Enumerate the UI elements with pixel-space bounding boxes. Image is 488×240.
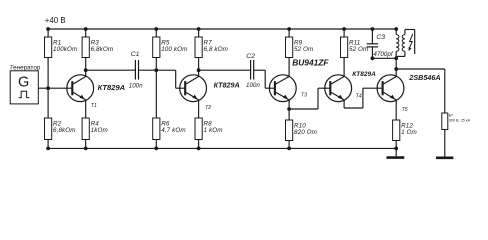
resistor R2 <box>45 88 76 148</box>
svg-text:КТ829А: КТ829А <box>98 83 126 92</box>
resistor R4 <box>82 118 108 148</box>
node: top rail / R11 <box>342 27 346 31</box>
svg-text:КТ829А: КТ829А <box>214 81 240 90</box>
node: top rail / R9 <box>287 27 291 31</box>
svg-text:Т5: Т5 <box>402 107 408 113</box>
node: top rail / R7 <box>197 27 201 31</box>
transistor T4 (КТ829А) <box>325 71 376 102</box>
node: top rail / C3 <box>371 27 375 31</box>
node: top rail end / primary / C3 wire <box>394 27 398 31</box>
spark discharge arrow <box>409 34 413 49</box>
svg-text:100n: 100n <box>129 83 143 90</box>
svg-text:G: G <box>18 74 29 90</box>
node: R6 / ground rail <box>154 147 158 151</box>
wire generator output to T1 base <box>38 87 72 89</box>
node: top rail / R3 <box>84 27 88 31</box>
transistor T5 (2SB546A) <box>377 73 440 113</box>
svg-text:1 kOm: 1 kOm <box>204 127 223 134</box>
resistor R5 <box>153 29 188 70</box>
node: R7 / C2 / T2 collector <box>197 68 201 72</box>
wire T1 collector node to C1 <box>86 69 136 71</box>
svg-text:КТ829А: КТ829А <box>352 71 376 78</box>
svg-text:4,7 kOm: 4,7 kOm <box>161 127 186 134</box>
wire T5 collector node to arrester <box>396 68 445 70</box>
node: T5 collector / arrester branch <box>394 67 398 71</box>
node: R3 / C1 / T1 collector <box>84 68 88 72</box>
wire transformer to T5 collector <box>395 58 397 75</box>
transistor T3 (BU941ZF) <box>269 58 329 103</box>
wire T4 emitter to T5 base link <box>343 102 345 108</box>
arrester BT (300 V, 25 kA) <box>442 113 471 130</box>
resistor R9 <box>286 29 314 75</box>
wire C1 to T2 base node <box>139 69 157 71</box>
node: R8 / ground rail <box>197 147 201 151</box>
svg-text:100kOm: 100kOm <box>53 46 77 53</box>
transformer secondary winding <box>396 30 415 57</box>
node: primary bottom / secondary bottom / T5 collector <box>394 56 398 60</box>
wire T1 collector vertical <box>85 70 87 75</box>
svg-text:1 Om: 1 Om <box>401 129 417 136</box>
node: R12 / ground rail end <box>394 147 398 151</box>
node: T3 emitter / R10 / link <box>287 107 291 111</box>
node: R2 / ground rail <box>46 147 50 151</box>
wire T3 emitter node to T4 base link <box>289 108 318 110</box>
node: C3 / primary bottom wire <box>371 56 375 60</box>
svg-text:Генератор: Генератор <box>10 64 41 71</box>
wire C2 to T3 base <box>254 69 266 71</box>
svg-text:820 Om: 820 Om <box>294 129 317 136</box>
ground symbol at rail end <box>395 148 397 157</box>
wire T2 collector vertical <box>198 70 200 75</box>
node: R10 / ground rail <box>287 147 291 151</box>
svg-text:BU941ZF: BU941ZF <box>292 58 329 68</box>
svg-text:C3: C3 <box>376 34 385 41</box>
capacitor C1 <box>129 51 143 90</box>
svg-text:52 Om: 52 Om <box>349 46 368 53</box>
svg-text:БТ: БТ <box>449 114 454 118</box>
resistor R3 <box>82 29 113 70</box>
svg-text:1kOm: 1kOm <box>91 127 108 134</box>
resistor R8 <box>195 118 223 148</box>
top power rail +40V <box>48 28 396 30</box>
capacitor C2 <box>246 53 260 89</box>
svg-text:4700pf: 4700pf <box>373 51 394 58</box>
wire arrester to ground <box>444 130 446 158</box>
svg-text:+40 В: +40 В <box>45 16 66 25</box>
svg-text:Т2: Т2 <box>205 105 211 111</box>
resistor R10 <box>286 109 318 148</box>
svg-text:6,8kOm: 6,8kOm <box>53 127 76 134</box>
wire T2 base jog <box>156 69 175 71</box>
node: C1 / R5 / R6 / T2 base <box>154 68 158 72</box>
svg-text:100 kOm: 100 kOm <box>161 46 187 53</box>
wire T2 emitter to R8 <box>198 102 200 118</box>
svg-text:2SB546A: 2SB546A <box>408 73 440 82</box>
svg-text:300 В, 25 кА: 300 В, 25 кА <box>449 118 471 122</box>
svg-text:6,8kOm: 6,8kOm <box>91 46 114 53</box>
ground symbol at arrester <box>436 157 453 160</box>
svg-text:Т3: Т3 <box>301 93 307 99</box>
resistor R7 <box>195 29 228 70</box>
svg-text:C1: C1 <box>131 51 140 58</box>
svg-text:52 Om: 52 Om <box>294 46 313 53</box>
bottom ground rail <box>48 147 396 149</box>
node: T1 base / R1 / R2 / generator <box>46 86 50 90</box>
node: R4 / ground rail <box>84 147 88 151</box>
resistor R12 <box>393 120 417 148</box>
node: top rail / R1 <box>46 27 50 31</box>
transistor T1 (КТ829А) <box>67 74 125 109</box>
node: top rail / R5 <box>154 27 158 31</box>
svg-text:100n: 100n <box>246 82 260 89</box>
wire T1 emitter to R4 <box>85 102 87 118</box>
transistor T2 (КТ829А) <box>180 74 240 111</box>
svg-text:Т4: Т4 <box>356 94 362 100</box>
resistor R6 <box>153 118 186 140</box>
wire T2 collector node to C2 <box>199 69 251 71</box>
transformer primary winding <box>396 29 399 58</box>
wire T3 emitter to node <box>288 102 290 109</box>
wire T2 base node down to R6 <box>155 70 157 118</box>
resistor R1 <box>45 29 78 88</box>
svg-text:Т1: Т1 <box>91 103 97 109</box>
generator G1 <box>10 64 41 104</box>
svg-text:6,8 kOm: 6,8 kOm <box>204 46 229 53</box>
wire R6 to ground rail <box>155 140 157 149</box>
capacitor C3 <box>367 29 394 58</box>
wire C3 bottom to T5 collector node <box>372 57 396 59</box>
resistor R11 <box>341 29 369 75</box>
svg-text:C2: C2 <box>246 53 255 60</box>
wire T5 emitter to R12 <box>395 102 397 120</box>
